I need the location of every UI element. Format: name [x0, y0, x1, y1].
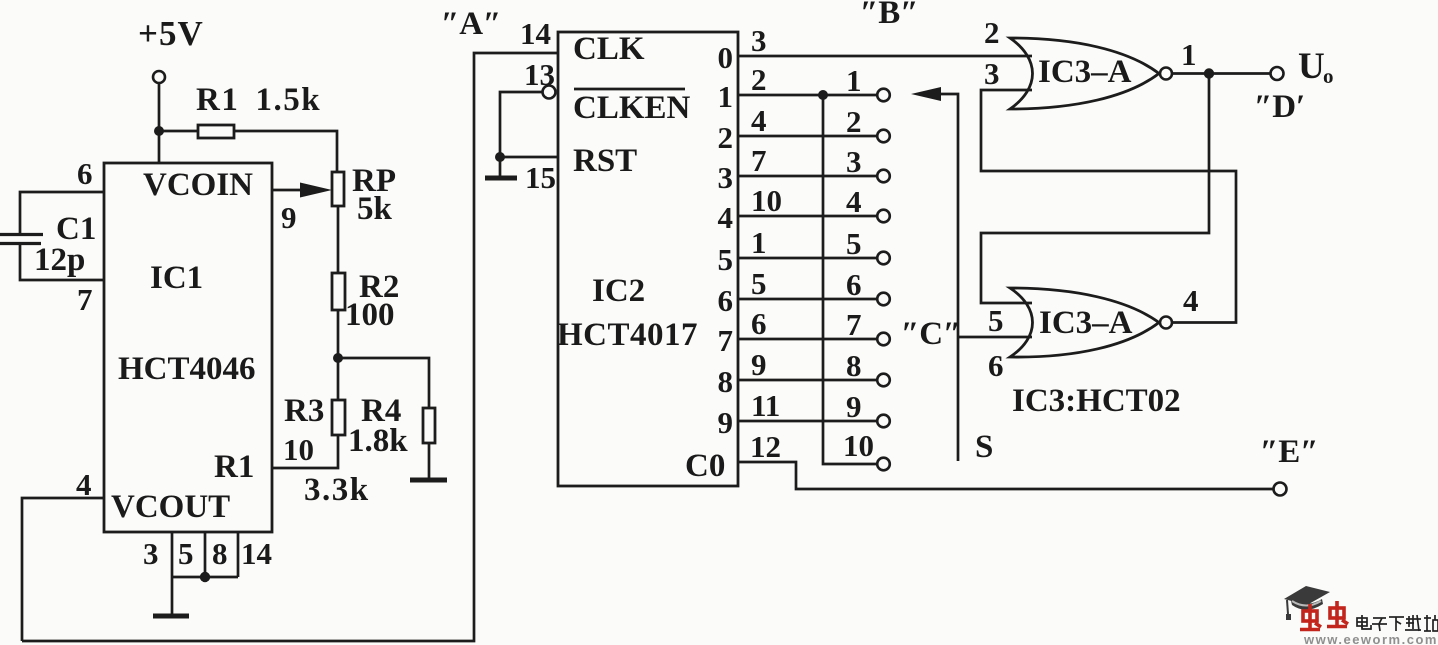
wire R2 to node [337, 310, 340, 358]
svg-text:1: 1 [751, 225, 767, 260]
svg-text:IC2: IC2 [592, 273, 645, 309]
node junction on output 1 [818, 90, 828, 100]
watermark logo graduation cap [1284, 586, 1330, 620]
RP wiper arrow [300, 183, 332, 198]
IC2 pin13 inversion bubble [543, 86, 556, 99]
svg-text:9: 9 [718, 405, 734, 440]
svg-text:4: 4 [846, 184, 862, 219]
svg-text:U: U [1298, 46, 1325, 87]
switch contact 7 [877, 333, 890, 346]
svg-text:CLKEN: CLKEN [573, 90, 691, 126]
svg-text:1: 1 [1181, 37, 1197, 72]
svg-text:HCT4046: HCT4046 [118, 351, 256, 387]
svg-text:3: 3 [751, 23, 767, 58]
switch contact 8 [877, 374, 890, 387]
resistor R1 [198, 125, 234, 138]
nor-gate U2 output bubble [1160, 317, 1172, 329]
svg-text:5: 5 [178, 536, 194, 571]
wire IC1 bottom pins join [172, 576, 238, 579]
wire IC2 output 7 (pin 6) [738, 338, 877, 341]
svg-text:1: 1 [718, 79, 734, 114]
wire node to R3 [337, 358, 340, 400]
wire IC1 pin4 to bottom bus [22, 498, 104, 641]
wire IC2 output 0 (pin 3) [738, 55, 1032, 58]
switch contact 1 [877, 89, 890, 102]
wire R4 to ground [428, 443, 431, 479]
svg-text:o: o [1323, 64, 1334, 88]
switch contact 4 [877, 210, 890, 223]
ground RST/CLKEN [485, 176, 517, 181]
svg-text:www.eeworm.com: www.eeworm.com [1303, 632, 1438, 645]
switch contact 5 [877, 252, 890, 265]
switch contact 3 [877, 170, 890, 183]
wire node to R4 [338, 358, 429, 408]
watermark bug character 2 [1327, 601, 1348, 627]
wire R3 to IC1 pin10 [272, 435, 338, 468]
wire IC2 output 6 (pin 5) [738, 298, 877, 301]
svg-text:12p: 12p [34, 242, 85, 278]
resistor R4 [423, 408, 435, 443]
wire pin13 to ground net [500, 92, 542, 157]
svg-text:″A″: ″A″ [441, 6, 501, 42]
switch contact 10 [877, 458, 890, 471]
svg-text:8: 8 [846, 348, 862, 383]
wire +5V to IC1 VCOIN top [158, 83, 161, 163]
svg-text:5: 5 [751, 266, 767, 301]
wire output1 junction down to contact 10 [823, 95, 877, 464]
svg-text:IC3:HCT02: IC3:HCT02 [1012, 383, 1181, 419]
wire C1 to IC1 pin7 [20, 244, 104, 280]
svg-text:3.3k: 3.3k [304, 472, 370, 508]
wire IC1 bottom pin b [204, 532, 207, 577]
svg-text:4: 4 [751, 103, 767, 138]
wire IC2 output 8 (pin 9) [738, 379, 877, 382]
wire R1 to RP top [234, 131, 337, 172]
switch contact 6 [877, 293, 890, 306]
svg-text:IC3–A: IC3–A [1039, 305, 1133, 341]
node junction pin13/pin15 [495, 152, 505, 162]
svg-text:RST: RST [573, 143, 637, 179]
svg-text:2: 2 [718, 120, 734, 155]
op IC1 HCT4046 body [104, 163, 272, 532]
svg-text:IC3–A: IC3–A [1038, 54, 1132, 90]
svg-text:CLK: CLK [573, 31, 645, 67]
svg-text:″E″: ″E″ [1260, 434, 1318, 470]
svg-text:10: 10 [283, 432, 314, 467]
svg-text:R3: R3 [284, 393, 324, 429]
wire node to IC2 pin15 [500, 156, 558, 159]
wire node to ground [499, 157, 502, 176]
counter IC2 HCT4017 body [558, 32, 738, 486]
svg-text:5k: 5k [357, 191, 393, 227]
power +5V terminal [153, 71, 165, 83]
svg-text:6: 6 [77, 156, 93, 191]
ground IC1 [153, 614, 189, 619]
switch contact 2 [877, 130, 890, 143]
wire IC2 output 3 (pin 7) [738, 175, 877, 178]
svg-text:3: 3 [846, 144, 862, 179]
svg-text:″C″: ″C″ [901, 316, 961, 352]
svg-text:6: 6 [751, 306, 767, 341]
svg-text:5: 5 [988, 303, 1004, 338]
node junction bottom pins [200, 572, 210, 582]
svg-text:3: 3 [143, 536, 159, 571]
svg-text:9: 9 [281, 200, 297, 235]
svg-text:6: 6 [718, 283, 734, 318]
svg-text:10: 10 [751, 183, 782, 218]
svg-text:5: 5 [846, 226, 862, 261]
svg-text:R1: R1 [214, 449, 254, 485]
nor-gate U1 IC3-A (top) body [1010, 38, 1159, 109]
svg-text:IC1: IC1 [150, 260, 203, 296]
resistor R3 [332, 400, 345, 435]
wire IC1 bottom pin a [171, 532, 174, 577]
svg-text:0: 0 [718, 40, 734, 75]
switch contact 9 [877, 415, 890, 428]
node junction +5V/R1 [154, 126, 164, 136]
terminal Uo [1271, 67, 1284, 80]
svg-text:2: 2 [984, 15, 1000, 50]
svg-text:4: 4 [1183, 283, 1199, 318]
svg-text:4: 4 [718, 200, 734, 235]
svg-text:100: 100 [345, 297, 395, 333]
svg-text:9: 9 [751, 347, 767, 382]
svg-text:14: 14 [241, 536, 272, 571]
wire IC2 output 1 (pin 2) [738, 94, 877, 97]
potentiometer RP [332, 172, 344, 206]
wire wiper arrow to S line [939, 94, 958, 461]
ground R4 [410, 478, 447, 483]
svg-text:7: 7 [718, 323, 734, 358]
resistor R2 [332, 273, 345, 310]
capacitor C1 [0, 233, 43, 236]
wire IC1 pin9 to RP wiper [272, 189, 305, 192]
svg-text:S: S [975, 429, 993, 465]
svg-text:7: 7 [751, 143, 767, 178]
svg-text:R1 1.5k: R1 1.5k [196, 82, 321, 118]
svg-text:2: 2 [751, 62, 767, 97]
svg-text:2: 2 [846, 104, 862, 139]
svg-text:″B″: ″B″ [860, 0, 918, 31]
svg-text:11: 11 [751, 388, 780, 423]
wire to ground IC1 [171, 577, 174, 616]
wire IC1 bottom pin c [237, 532, 240, 577]
svg-text:12: 12 [750, 429, 781, 464]
svg-text:10: 10 [843, 428, 874, 463]
wire S line to NOR2 input 6 [958, 336, 1032, 339]
wire IC2 output 2 (pin 4) [738, 135, 877, 138]
svg-text:3: 3 [718, 160, 734, 195]
svg-text:7: 7 [77, 282, 93, 317]
svg-text:1.8k: 1.8k [348, 423, 408, 459]
svg-text:+5V: +5V [138, 14, 204, 53]
svg-text:6: 6 [988, 348, 1004, 383]
svg-text:″D′: ″D′ [1254, 89, 1305, 125]
svg-text:14: 14 [520, 16, 551, 51]
svg-text:VCOIN: VCOIN [143, 167, 253, 203]
svg-text:C0: C0 [685, 448, 725, 484]
svg-text:3: 3 [984, 56, 1000, 91]
wire IC2 output 9 (pin 11) [738, 420, 877, 423]
wire RP to R2 [337, 206, 340, 273]
terminal E [1274, 483, 1287, 496]
wire bottom bus to node A [22, 53, 558, 641]
svg-text:8: 8 [718, 364, 734, 399]
node junction Uo [1204, 68, 1214, 78]
node junction R2/R3/R4 [333, 353, 343, 363]
svg-text:HCT4017: HCT4017 [557, 317, 698, 353]
svg-text:9: 9 [846, 389, 862, 424]
watermark bug character 1 [1300, 604, 1321, 630]
nor-gate U1 output bubble [1160, 68, 1172, 80]
wire C0 (pin 12) to terminal E [738, 462, 1273, 489]
wire U1 output to terminal Uo [1172, 72, 1270, 75]
wire IC2 output 5 (pin 1) [738, 257, 877, 260]
wiper S arrow head [911, 87, 941, 101]
wire U1 output feedback to U2 input 5 [981, 74, 1209, 304]
svg-text:15: 15 [525, 160, 556, 195]
svg-text:8: 8 [212, 536, 228, 571]
svg-text:7: 7 [846, 307, 862, 342]
wire node to R1 [159, 130, 198, 133]
svg-text:1: 1 [846, 63, 862, 98]
watermark site name glyphs [1357, 615, 1438, 631]
wire IC2 output 4 (pin 10) [738, 215, 877, 218]
wire U2 output feedback to U1 input 3 [981, 90, 1236, 323]
svg-text:6: 6 [846, 267, 862, 302]
svg-text:VCOUT: VCOUT [111, 489, 230, 525]
svg-text:5: 5 [718, 242, 734, 277]
wire IC1 pin6 to C1 [20, 192, 104, 234]
nor-gate U2 IC3-A (bottom) body [1010, 288, 1159, 357]
